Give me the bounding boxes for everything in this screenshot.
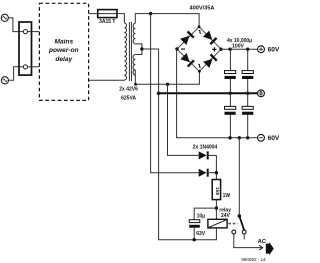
node cap C1 top (228, 48, 231, 51)
svg-text:1k8: 1k8 (214, 187, 220, 195)
svg-text:63V: 63V (196, 231, 206, 237)
svg-text:400V/35A: 400V/35A (190, 6, 215, 12)
label 3A15 T (99, 19, 115, 25)
AC mains arrow symbol (266, 242, 274, 255)
label 400V/35A (190, 6, 215, 12)
node bridge plus vertex (219, 48, 222, 51)
node bridge minus vertex (175, 47, 178, 50)
wire K1 pin1 to delay box (32, 31, 40, 33)
mains connector K1 (19, 22, 32, 75)
node cap C3 bottom (228, 136, 231, 139)
wire K1 pin2 to delay box (32, 66, 40, 68)
svg-text:625VA: 625VA (121, 96, 136, 102)
terminal -60V (258, 134, 265, 141)
bridge diode top-left (180, 31, 194, 45)
transformer TR1 primary winding (124, 23, 126, 80)
AC source TR1a (top mains phase) (1, 14, 8, 21)
label AC (258, 239, 267, 245)
AC source TR1b (bottom mains phase) (1, 77, 8, 84)
relay switch contact left (232, 230, 236, 234)
wire delay box to fuse F1 (89, 13, 98, 15)
wire AC2 down to D1 anode (168, 84, 199, 155)
wire bridge plus to +60V terminal (221, 48, 258, 50)
node cap C5 bottom (193, 238, 196, 241)
label relay 24V (219, 207, 231, 219)
label 10u (197, 213, 206, 219)
svg-text:delay: delay (55, 56, 72, 63)
wire AC1 down to D2 anode (151, 14, 199, 173)
bridge rectifier B1 outline (177, 27, 221, 72)
fuse F1 3A15 T (98, 10, 117, 18)
resistor R1 1k8 (212, 180, 220, 200)
node secondary bottom corner (134, 83, 137, 86)
wire secondary bottom to AC2 junction (135, 70, 167, 84)
svg-text:24V: 24V (221, 213, 231, 219)
node cap C2/C4 junction (246, 92, 249, 95)
wire D1 cathode down to resistor (215, 155, 217, 179)
label +60V (268, 47, 280, 54)
capacitor C2 10000u (242, 49, 253, 93)
wire delay box bottom to transformer primary bottom (89, 79, 125, 81)
bridge diode top-right (203, 31, 217, 45)
AC output open arrowhead (259, 245, 262, 250)
diode D2 1N4004 (199, 169, 217, 177)
label 1W (223, 193, 231, 199)
terminal pin 2 of K1 (19, 65, 32, 69)
terminal 0 (258, 90, 265, 97)
capacitor C5 10u (189, 220, 200, 240)
terminal pin 1 of K1 (19, 30, 32, 34)
wire switch to AC output (234, 234, 262, 248)
svg-text:2x 42V6: 2x 42V6 (119, 87, 138, 93)
svg-text:100V: 100V (232, 43, 244, 49)
node AC1 tap junction (149, 12, 152, 15)
terminal +60V (258, 46, 265, 53)
node D2 cathode junction (215, 171, 218, 174)
mains power-on delay box (dashed) (39, 3, 88, 100)
label 4x 10,000u 100V (227, 38, 252, 50)
node bridge bottom vertex (198, 70, 201, 73)
capacitor C3 10000u (225, 93, 236, 138)
diode D1 1N4004 (199, 151, 217, 159)
svg-text:2x 1N4004: 2x 1N4004 (193, 145, 218, 151)
wire junction to cap C5 (194, 208, 216, 220)
node cap C1/C3 junction (228, 92, 231, 95)
node relay/cap junction (215, 206, 218, 209)
label 63V (196, 231, 206, 237)
svg-text:60V: 60V (268, 47, 280, 54)
node cap C2 top (246, 48, 249, 51)
svg-text:3A15 T: 3A15 T (99, 19, 115, 25)
label 2x 42V6 625VA (119, 87, 138, 102)
wire secondary top to bridge top (AC1 line) (135, 14, 199, 27)
transformer TR1 secondary winding lower (133, 55, 135, 75)
wire fuse to transformer primary (117, 14, 124, 23)
svg-text:950092 - 14: 950092 - 14 (241, 257, 266, 262)
relay coil Re1 (208, 219, 227, 228)
wire bridge minus down to -60V rail (177, 49, 258, 138)
transformer TR1 secondary winding upper (133, 23, 135, 44)
transformer center tap bracket (135, 44, 142, 55)
wire 0 line to relay bottom (159, 93, 217, 239)
node bridge top vertex (198, 25, 201, 28)
bridge diode bottom-left (180, 53, 194, 67)
node relay switch feed (238, 136, 241, 139)
relay switch contact right (242, 230, 246, 239)
svg-text:1W: 1W (223, 193, 231, 199)
node cap C4 bottom (246, 136, 249, 139)
label 2x 1N4004 (193, 145, 218, 151)
transformer TR1 core (129, 22, 131, 81)
label -60V (268, 135, 280, 142)
node AC2 junction (166, 83, 169, 86)
wire -60V rail down to switch (238, 138, 240, 216)
wire from top AC source to connector K1 (8, 18, 19, 32)
wire resistor to relay coil (215, 200, 217, 220)
svg-text:60V: 60V (268, 135, 280, 142)
0 rail (thick) (159, 92, 258, 94)
node 0 rail left corner (157, 92, 161, 96)
label Mains power-on delay (48, 39, 79, 63)
node center tap junction (140, 47, 143, 50)
label 950092-14 (241, 257, 266, 262)
bridge diode bottom-right (203, 54, 217, 68)
wire from bottom AC source to connector K1 (9, 67, 20, 81)
wire center tap to 0 rail (142, 49, 159, 93)
relay switch blade (239, 216, 244, 230)
capacitor C4 10000u (242, 93, 253, 138)
relay switch pivot (238, 214, 242, 218)
svg-text:AC: AC (258, 239, 267, 245)
relay mechanical link (dashed) (228, 223, 237, 225)
bridge polarity marks (181, 30, 217, 68)
svg-text:power-on: power-on (48, 47, 79, 54)
svg-text:10µ: 10µ (197, 213, 206, 219)
capacitor C1 10000u (225, 49, 236, 93)
svg-text:Mains: Mains (54, 39, 73, 46)
wire bridge bottom to AC2 junction (168, 71, 200, 84)
